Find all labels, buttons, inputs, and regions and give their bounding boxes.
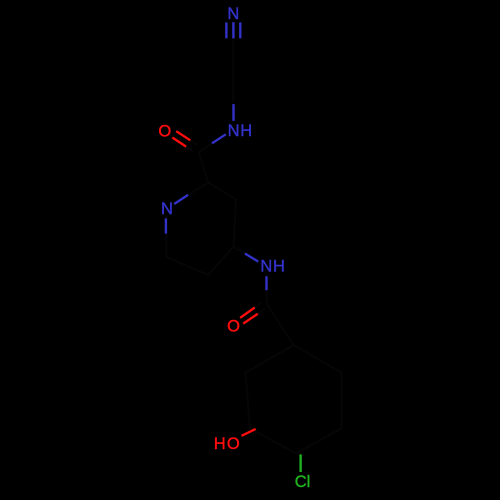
bond C8-N6 dark half <box>234 247 245 254</box>
wire chain C2-C3 below nitrile <box>232 40 234 103</box>
bond C10=O2 dark stubs <box>255 302 262 307</box>
nitrile triple bond C#N (blue halves) <box>166 22 267 290</box>
bond C4-C5 (to pyridine ring) <box>199 152 209 183</box>
bond N6-C10 blue half <box>265 276 267 290</box>
bond N5-C7 blue half (pyridine N down) <box>165 218 167 233</box>
bond N3-C4 dark half <box>199 143 213 152</box>
bond C14-Cl green half <box>299 454 301 472</box>
bond C14-Cl dark stub <box>296 453 301 456</box>
svg-text:O: O <box>158 122 171 140</box>
bond C3-N3 blue half (to amide NH) <box>232 104 234 121</box>
bond C4=O1 dark stubs <box>190 140 197 145</box>
svg-text:N: N <box>227 5 239 23</box>
svg-text:HO: HO <box>214 435 241 453</box>
svg-text:Cl: Cl <box>295 473 311 491</box>
benzene ring dark edges <box>245 345 341 454</box>
carbonyl C10=O2 double bond red halves <box>240 308 255 318</box>
bond N5-C6 blue half (pyridine N upper right) <box>174 195 188 204</box>
bond N6-C10 dark half <box>266 290 268 304</box>
svg-text:N: N <box>161 200 173 218</box>
skeleton carbon-carbon bonds (near-black) <box>166 40 341 454</box>
svg-text:NH: NH <box>228 122 253 140</box>
bond C8-N6 blue half <box>245 254 258 262</box>
svg-text:NH: NH <box>260 258 285 276</box>
bond N3-C4 blue half <box>212 134 226 143</box>
svg-text:O: O <box>227 317 240 335</box>
bond C10-C11 (to benzene ring) <box>267 304 294 345</box>
carbonyl C4=O1 double bond red halves <box>172 131 257 436</box>
bond O3-C13 red half (phenol) <box>242 429 256 436</box>
pyridine ring dark edges <box>166 183 236 275</box>
